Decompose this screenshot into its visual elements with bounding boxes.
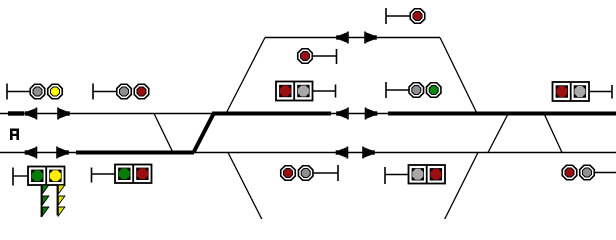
signal S3 (single red octagon, pole left, top): [386, 8, 425, 24]
arrows upper line middle pair: [336, 108, 349, 120]
feather column green (below B3 left cell): [42, 185, 49, 217]
track: upper main thick segment right: [388, 112, 616, 116]
boxed signal B1 (red/gray, pole right): [276, 82, 336, 101]
track: right crossover upper-to-lower D6a: [488, 114, 508, 153]
arrows upper line left pair: [25, 108, 38, 120]
track: upper main line (thin, full width): [0, 113, 616, 115]
signal S7 (octagon pair red/gray, pole right, below): [281, 165, 338, 181]
track: lower main thick segment left: [76, 151, 194, 155]
boxed signal B5 (gray/red, pole left): [385, 165, 445, 184]
signal S8 (octagon pair red/gray, pole right, bottom right): [562, 165, 616, 180]
track: upper main thick segment middle: [212, 112, 331, 116]
track: right crossover upper-to-lower D7: [544, 114, 562, 153]
track: branch down-right from lower line D5: [228, 153, 262, 220]
signal S1 (octagon pair gray/yellow, pole left): [7, 84, 62, 100]
track: siding connector left D4: [226, 38, 265, 114]
arrows lower line middle pair: [336, 147, 349, 159]
track: crossover diagonal thick D2: [194, 114, 214, 153]
track: upper main thick occupied bar left: [8, 111, 24, 115]
arrows siding pair: [336, 32, 349, 44]
track: crossover diagonal thin D1: [154, 114, 173, 152]
signal S5 (octagon pair gray/green, pole left): [386, 82, 441, 98]
signal S2 (octagon pair gray/red, pole left): [93, 84, 149, 100]
boxed signal B4 (green/red, pole left): [92, 165, 152, 184]
track: branch below lower line D6b: [445, 153, 479, 220]
boxed signal B3 (green/yellow, pole left, with route feathers): [13, 167, 65, 186]
feather column yellow (below B3 right cell): [58, 185, 65, 216]
track: siding connector right D3: [440, 38, 477, 114]
track: top siding line: [265, 37, 440, 39]
signal S4 (single red octagon, pole right): [298, 49, 337, 64]
label A: [10, 129, 19, 141]
track: lower main line (thin, full width): [0, 152, 616, 154]
arrows lower line left pair: [25, 147, 38, 159]
boxed signal B2 (red/gray, pole right, top right): [553, 82, 613, 101]
